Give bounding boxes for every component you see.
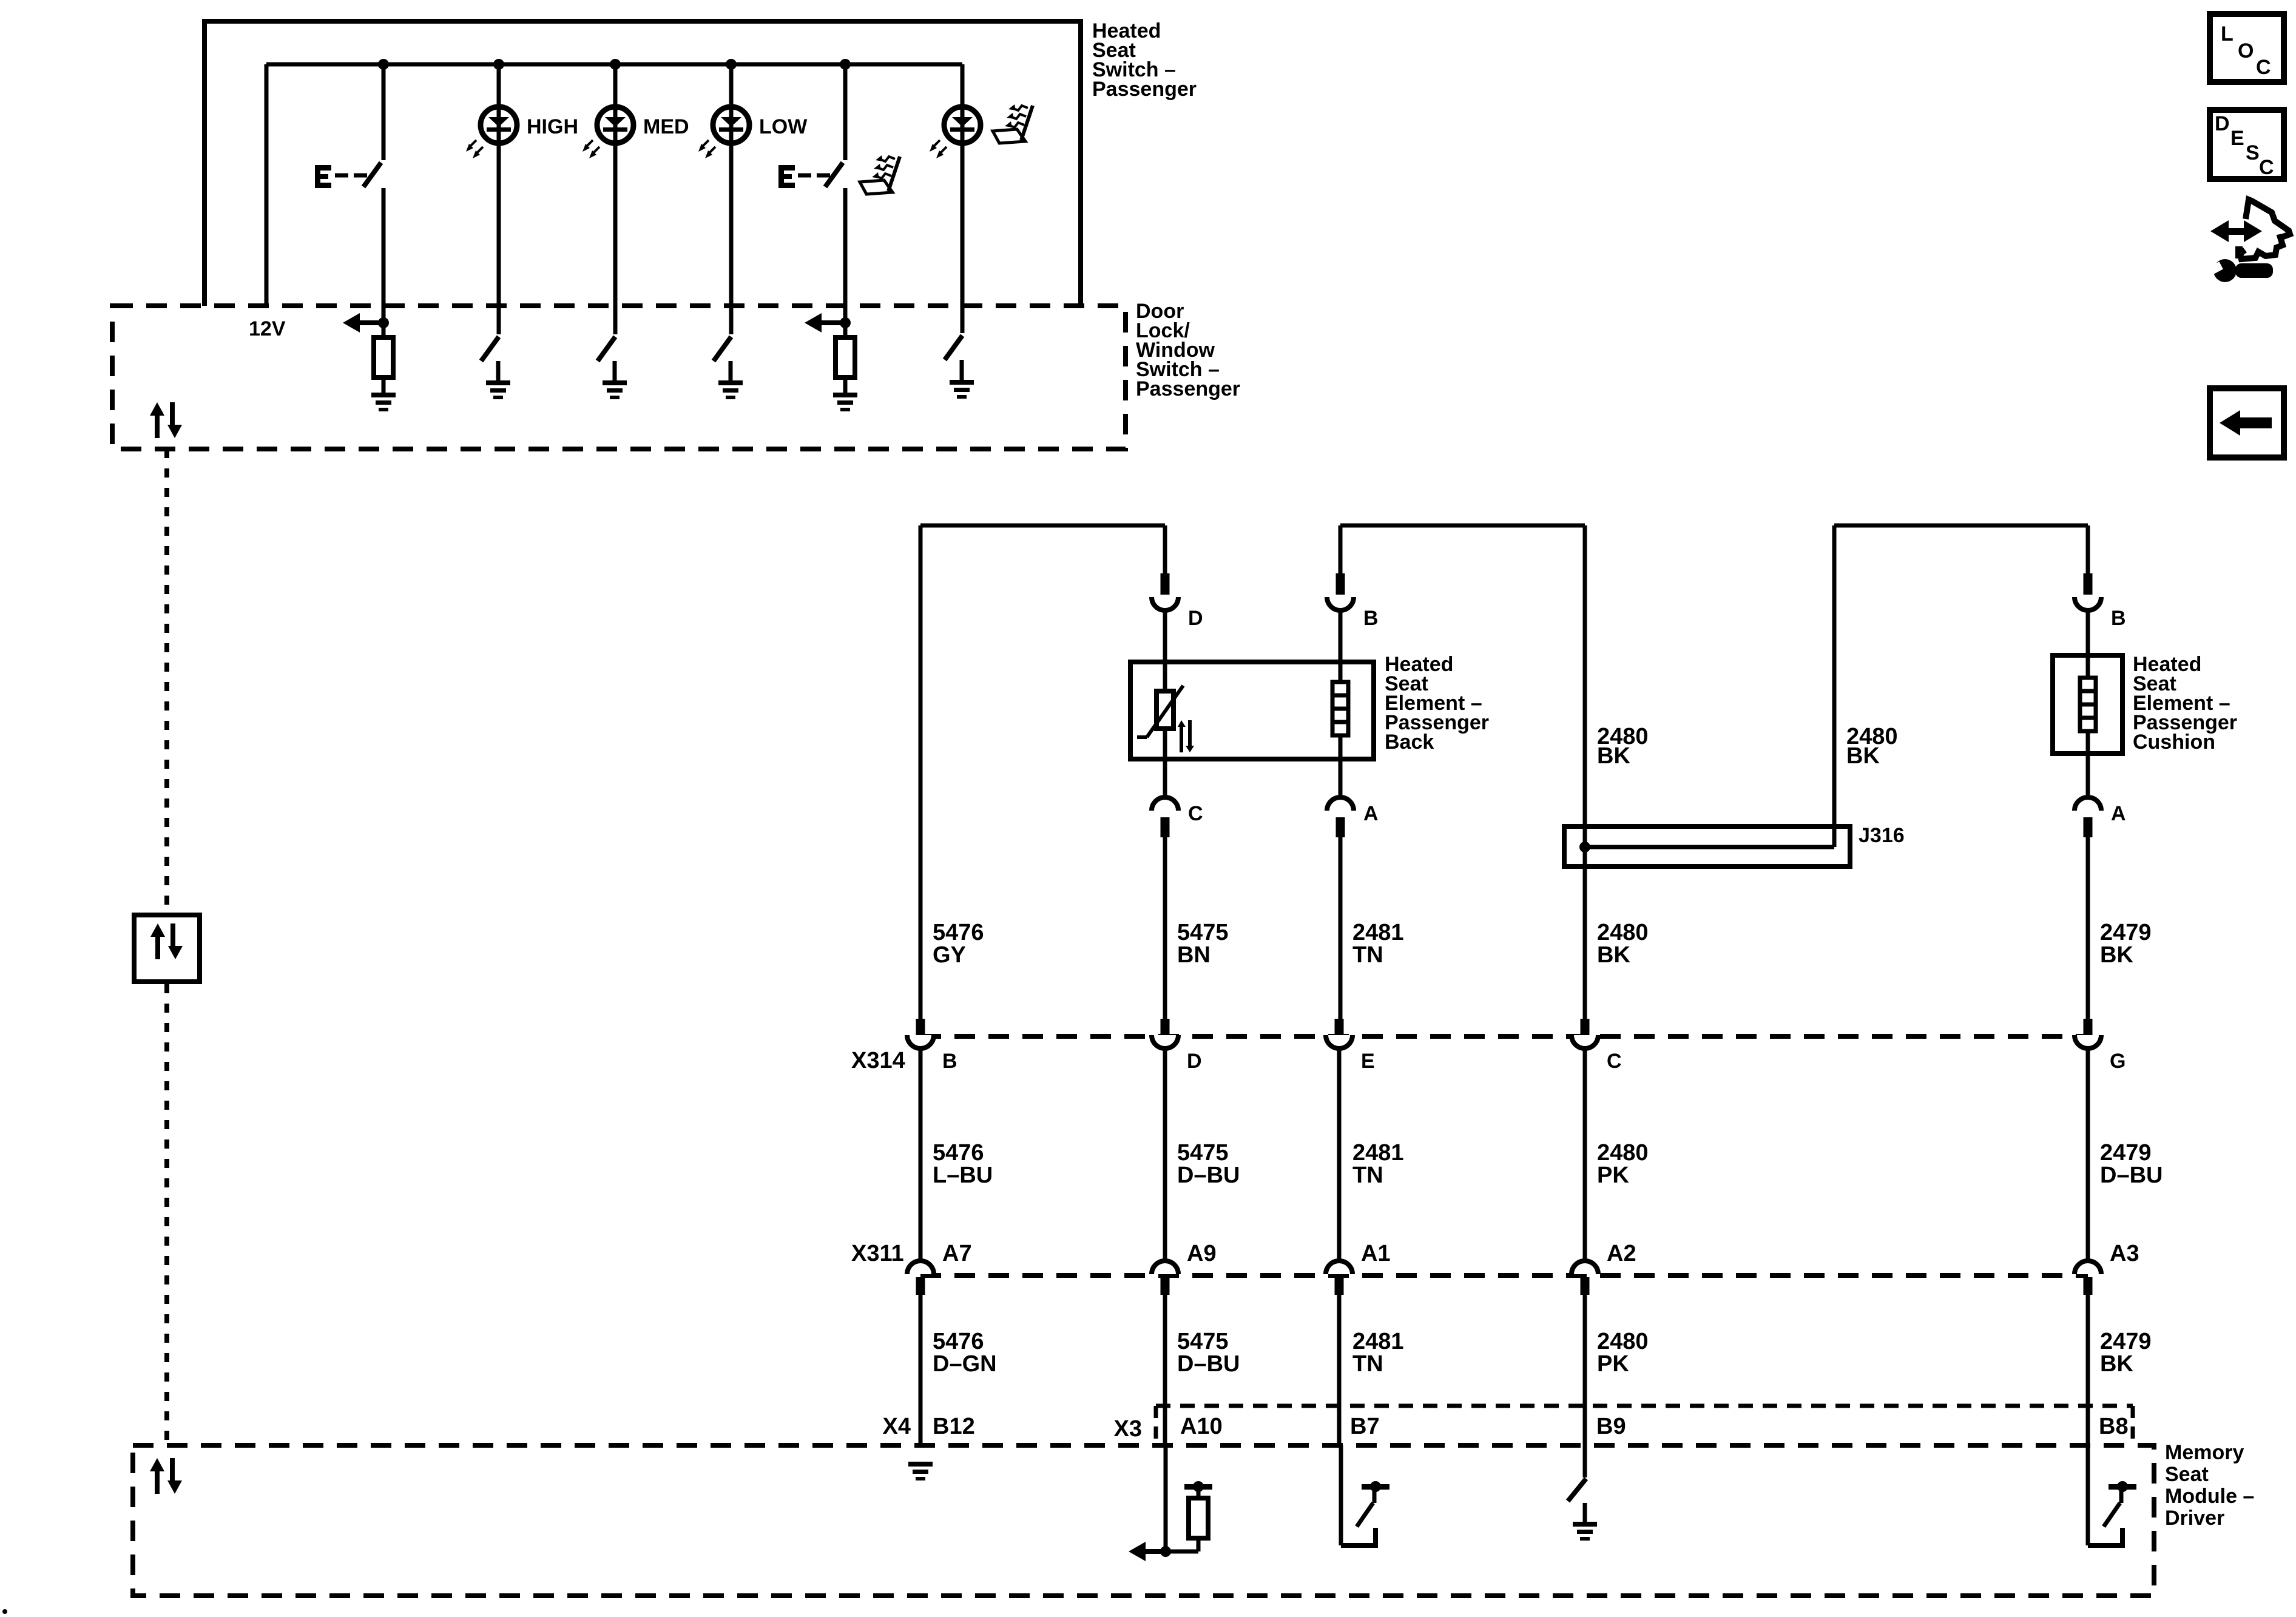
svg-text:O: O — [2238, 39, 2254, 62]
svg-text:5475: 5475 — [1177, 920, 1229, 945]
svg-text:X3: X3 — [1114, 1416, 1142, 1442]
svg-text:5476: 5476 — [933, 1140, 984, 1166]
svg-text:D–GN: D–GN — [933, 1351, 997, 1377]
svg-text:BK: BK — [1597, 743, 1630, 769]
svg-text:A7: A7 — [942, 1241, 972, 1266]
svg-text:C: C — [2256, 56, 2271, 79]
svg-text:A2: A2 — [1607, 1241, 1636, 1266]
svg-text:E: E — [1361, 1050, 1375, 1073]
svg-text:C: C — [1607, 1050, 1622, 1073]
svg-text:BK: BK — [2100, 942, 2133, 968]
svg-text:2481: 2481 — [1352, 1329, 1404, 1354]
svg-text:LOW: LOW — [759, 115, 808, 138]
svg-text:B9: B9 — [1596, 1414, 1626, 1439]
svg-text:G: G — [2110, 1050, 2125, 1073]
svg-text:D–BU: D–BU — [1177, 1351, 1240, 1377]
svg-text:5476: 5476 — [933, 920, 984, 945]
svg-text:C: C — [1188, 802, 1203, 825]
svg-text:D: D — [2215, 112, 2230, 135]
svg-text:X311: X311 — [851, 1241, 904, 1266]
svg-text:B: B — [942, 1050, 957, 1073]
svg-text:Memory: Memory — [2165, 1441, 2244, 1464]
svg-text:HIGH: HIGH — [527, 115, 578, 138]
svg-text:TN: TN — [1352, 1163, 1383, 1188]
svg-text:12V: 12V — [249, 317, 286, 340]
svg-text:Passenger: Passenger — [1136, 377, 1240, 400]
svg-text:D: D — [1188, 607, 1203, 630]
svg-text:S: S — [2246, 141, 2260, 164]
svg-text:D: D — [1187, 1050, 1202, 1073]
svg-text:A1: A1 — [1361, 1241, 1391, 1266]
svg-text:Back: Back — [1385, 731, 1434, 754]
svg-text:Driver: Driver — [2165, 1507, 2224, 1530]
svg-text:PK: PK — [1597, 1351, 1629, 1377]
svg-text:PK: PK — [1597, 1163, 1629, 1188]
svg-text:E: E — [2230, 127, 2244, 150]
svg-text:A: A — [2111, 802, 2126, 825]
svg-text:C: C — [2259, 156, 2274, 179]
svg-text:2479: 2479 — [2100, 920, 2152, 945]
svg-text:B7: B7 — [1350, 1414, 1380, 1439]
svg-text:B: B — [2111, 607, 2126, 630]
svg-text:TN: TN — [1352, 1351, 1383, 1377]
svg-text:B8: B8 — [2099, 1414, 2129, 1439]
svg-text:D–BU: D–BU — [1177, 1163, 1240, 1188]
svg-text:MED: MED — [643, 115, 689, 138]
svg-text:2480: 2480 — [1597, 1140, 1649, 1166]
svg-text:2480: 2480 — [1597, 920, 1649, 945]
svg-text:BN: BN — [1177, 942, 1210, 968]
svg-text:D–BU: D–BU — [2100, 1163, 2163, 1188]
svg-text:A: A — [1363, 802, 1379, 825]
svg-text:BK: BK — [2100, 1351, 2133, 1377]
svg-text:BK: BK — [1597, 942, 1630, 968]
svg-text:X4: X4 — [883, 1414, 911, 1439]
svg-text:GY: GY — [933, 942, 966, 968]
svg-text:Cushion: Cushion — [2133, 731, 2215, 754]
svg-text:2480: 2480 — [1597, 1329, 1649, 1354]
svg-text:2481: 2481 — [1352, 1140, 1404, 1166]
svg-text:2479: 2479 — [2100, 1140, 2152, 1166]
svg-text:A10: A10 — [1180, 1414, 1223, 1439]
svg-text:B12: B12 — [933, 1414, 975, 1439]
svg-text:A9: A9 — [1187, 1241, 1217, 1266]
svg-text:2481: 2481 — [1352, 920, 1404, 945]
svg-text:2479: 2479 — [2100, 1329, 2152, 1354]
svg-text:5475: 5475 — [1177, 1140, 1229, 1166]
svg-text:A3: A3 — [2110, 1241, 2139, 1266]
svg-text:Seat: Seat — [2165, 1463, 2209, 1486]
svg-text:BK: BK — [1846, 743, 1880, 769]
svg-text:L–BU: L–BU — [933, 1163, 993, 1188]
svg-text:5475: 5475 — [1177, 1329, 1229, 1354]
svg-text:L: L — [2221, 22, 2234, 46]
svg-text:Module –: Module – — [2165, 1485, 2254, 1508]
svg-text:J316: J316 — [1859, 824, 1905, 847]
svg-text:Passenger: Passenger — [1092, 78, 1197, 101]
svg-text:TN: TN — [1352, 942, 1383, 968]
svg-text:5476: 5476 — [933, 1329, 984, 1354]
svg-text:X314: X314 — [851, 1048, 905, 1073]
svg-text:B: B — [1363, 607, 1379, 630]
